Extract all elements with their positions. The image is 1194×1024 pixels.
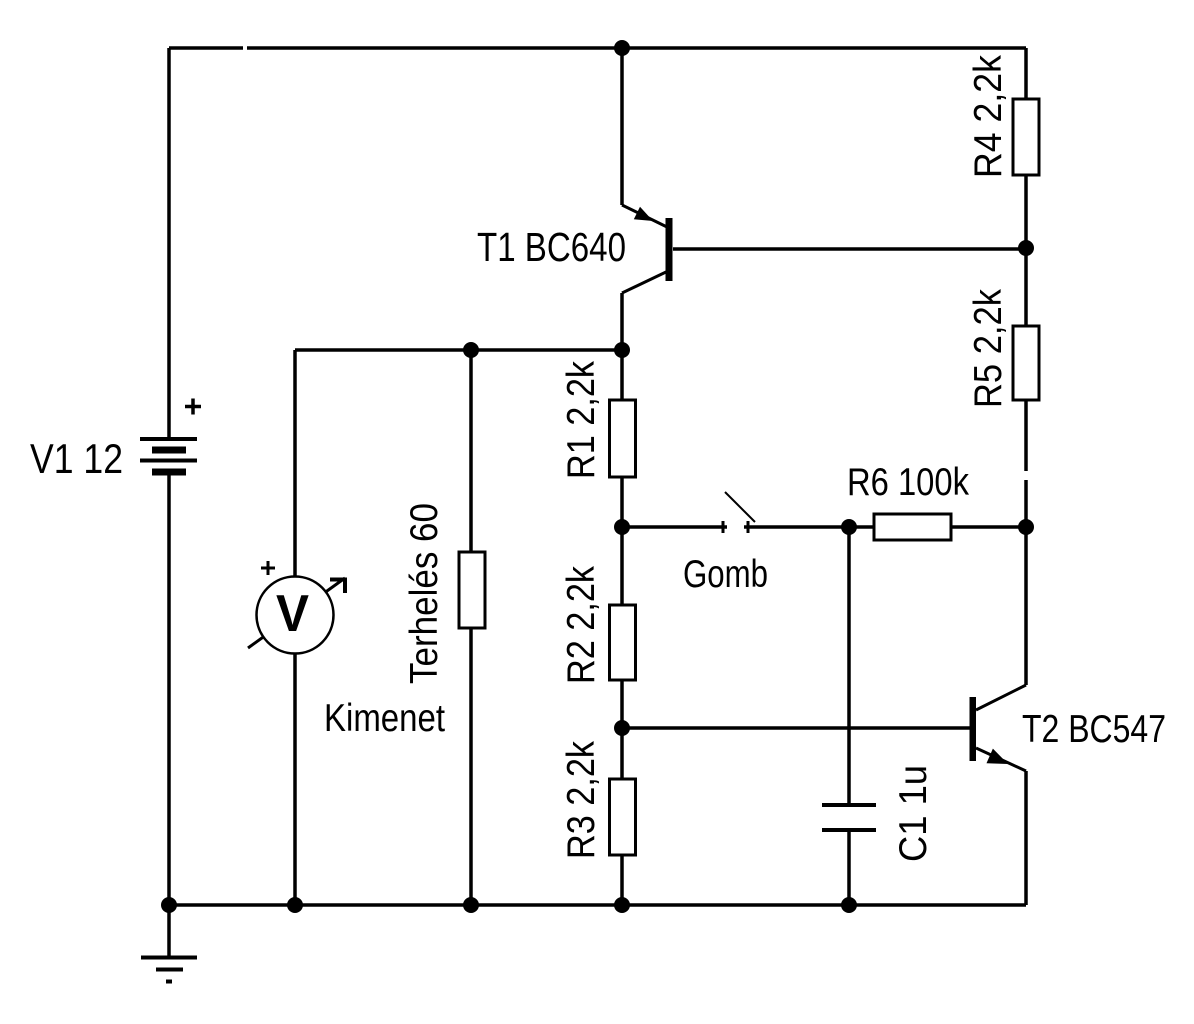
svg-text:R4 2,2k: R4 2,2k bbox=[967, 55, 1010, 178]
svg-text:V1 12: V1 12 bbox=[30, 435, 123, 482]
svg-text:V: V bbox=[276, 585, 309, 643]
svg-text:R2 2,2k: R2 2,2k bbox=[560, 566, 603, 684]
svg-text:Terhelés 60: Terhelés 60 bbox=[403, 503, 446, 684]
svg-text:R6 100k: R6 100k bbox=[847, 461, 969, 504]
svg-text:T2 BC547: T2 BC547 bbox=[1022, 708, 1166, 751]
svg-text:R5 2,2k: R5 2,2k bbox=[967, 289, 1010, 408]
svg-text:R3 2,2k: R3 2,2k bbox=[560, 741, 603, 859]
svg-text:R1 2,2k: R1 2,2k bbox=[560, 361, 603, 479]
svg-text:T1 BC640: T1 BC640 bbox=[477, 224, 626, 270]
svg-text:Gomb: Gomb bbox=[683, 553, 768, 596]
svg-text:C1 1u: C1 1u bbox=[892, 765, 935, 862]
svg-text:Kimenet: Kimenet bbox=[324, 697, 445, 740]
